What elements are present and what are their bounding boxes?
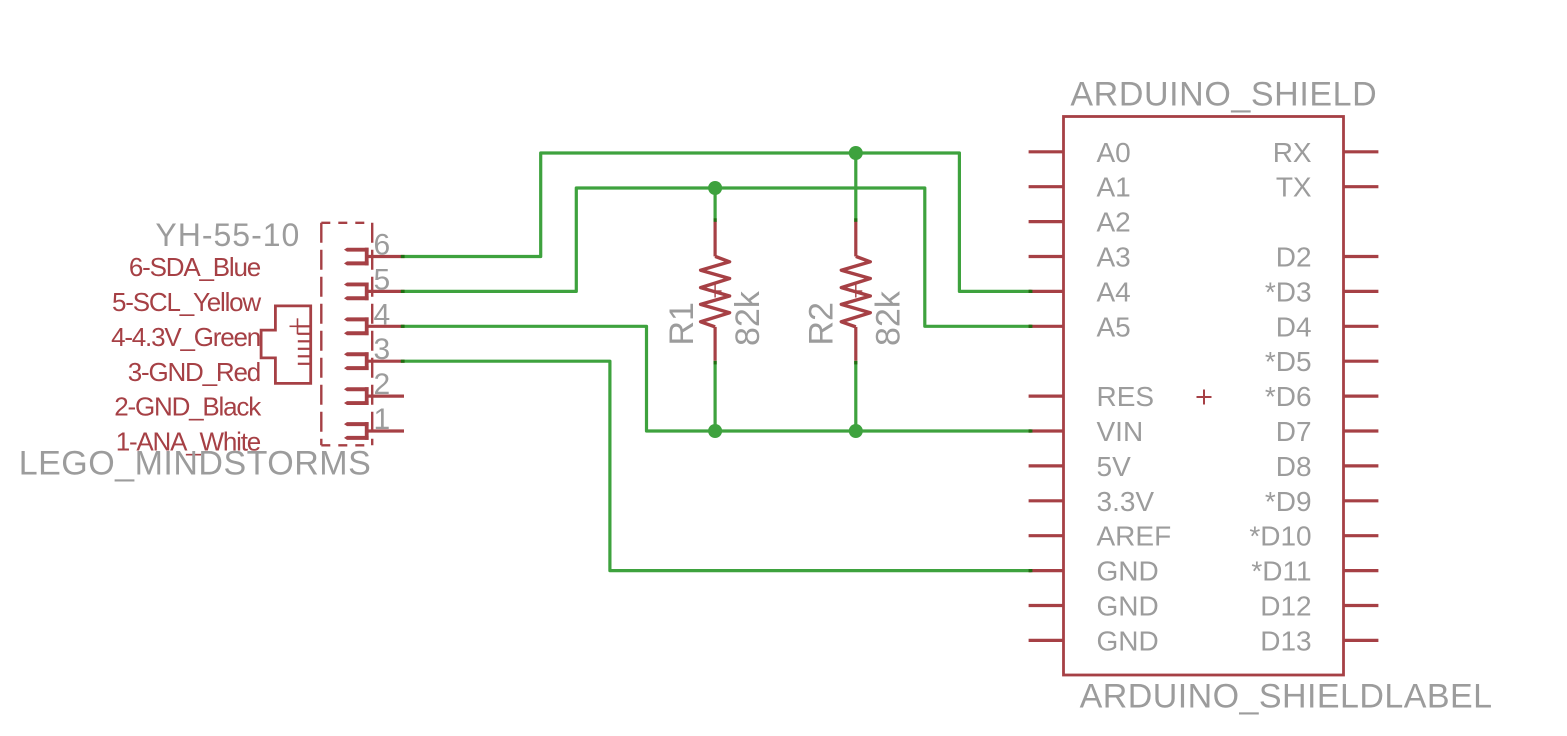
svg-text:TX: TX <box>1276 172 1312 203</box>
svg-text:A1: A1 <box>1097 172 1131 203</box>
svg-text:D2: D2 <box>1276 242 1312 273</box>
svg-text:A4: A4 <box>1097 276 1131 307</box>
svg-text:D13: D13 <box>1260 625 1311 656</box>
svg-text:GND: GND <box>1097 556 1159 587</box>
svg-text:A2: A2 <box>1097 207 1131 238</box>
svg-text:82k: 82k <box>870 290 908 346</box>
svg-text:VIN: VIN <box>1097 416 1144 447</box>
svg-text:GND: GND <box>1097 591 1159 622</box>
svg-text:6-SDA_Blue: 6-SDA_Blue <box>129 252 261 282</box>
svg-text:*D10: *D10 <box>1249 521 1311 552</box>
svg-text:A0: A0 <box>1097 137 1131 168</box>
svg-text:5V: 5V <box>1097 451 1132 482</box>
svg-text:4-4.3V_Green: 4-4.3V_Green <box>111 322 260 352</box>
svg-text:ARDUINO_SHIELD: ARDUINO_SHIELD <box>1070 75 1377 113</box>
svg-text:3-GND_Red: 3-GND_Red <box>128 357 260 387</box>
svg-text:AREF: AREF <box>1097 521 1172 552</box>
svg-text:*D9: *D9 <box>1265 486 1312 517</box>
svg-text:LEGO_MINDSTORMS: LEGO_MINDSTORMS <box>19 445 372 483</box>
svg-text:A5: A5 <box>1097 311 1131 342</box>
svg-text:2-GND_Black: 2-GND_Black <box>114 392 262 422</box>
svg-text:4: 4 <box>374 298 391 331</box>
svg-text:A3: A3 <box>1097 242 1131 273</box>
svg-text:*D5: *D5 <box>1265 346 1312 377</box>
svg-text:*D6: *D6 <box>1265 381 1312 412</box>
svg-text:RX: RX <box>1273 137 1312 168</box>
svg-text:5-SCL_Yellow: 5-SCL_Yellow <box>112 287 261 317</box>
svg-text:82k: 82k <box>729 290 767 346</box>
svg-text:GND: GND <box>1097 625 1159 656</box>
svg-text:3: 3 <box>374 333 391 366</box>
svg-text:*D11: *D11 <box>1251 556 1311 587</box>
svg-text:1: 1 <box>374 403 391 436</box>
svg-text:YH-55-10: YH-55-10 <box>155 217 300 253</box>
svg-text:ARDUINO_SHIELDLABEL: ARDUINO_SHIELDLABEL <box>1080 677 1493 715</box>
svg-text:6: 6 <box>374 229 391 262</box>
svg-text:D7: D7 <box>1276 416 1312 447</box>
svg-text:3.3V: 3.3V <box>1097 486 1155 517</box>
svg-text:R1: R1 <box>663 302 701 345</box>
svg-text:5: 5 <box>374 263 391 296</box>
svg-text:D12: D12 <box>1260 591 1311 622</box>
svg-text:RES: RES <box>1097 381 1155 412</box>
svg-text:D8: D8 <box>1276 451 1312 482</box>
svg-text:*D3: *D3 <box>1265 276 1312 307</box>
svg-text:D4: D4 <box>1276 311 1312 342</box>
svg-text:R2: R2 <box>803 302 841 345</box>
svg-text:2: 2 <box>374 368 391 401</box>
